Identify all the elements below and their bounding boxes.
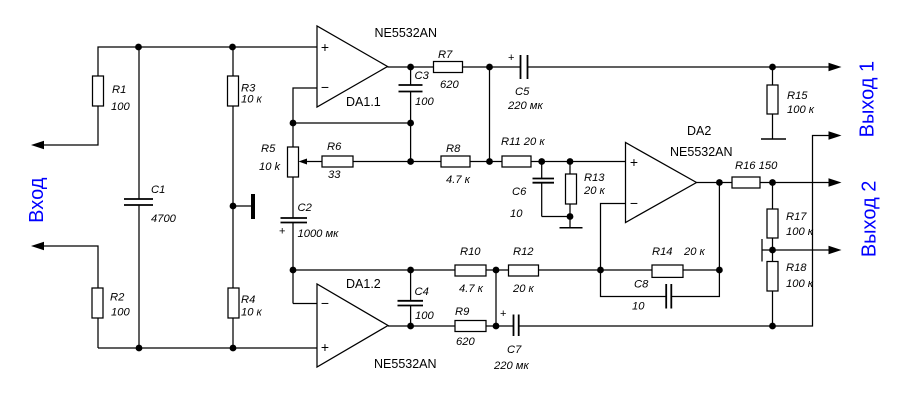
svg-text:DA2: DA2 bbox=[687, 124, 711, 138]
svg-text:+: + bbox=[321, 39, 329, 55]
svg-text:100: 100 bbox=[415, 96, 434, 108]
svg-text:C4: C4 bbox=[415, 286, 429, 298]
svg-text:DA1.2: DA1.2 bbox=[346, 277, 381, 291]
svg-text:R11 20 к: R11 20 к bbox=[501, 136, 545, 148]
svg-text:DA1.1: DA1.1 bbox=[346, 95, 381, 109]
svg-text:R8: R8 bbox=[446, 143, 461, 155]
svg-text:R1: R1 bbox=[112, 84, 126, 96]
svg-text:100 к: 100 к bbox=[787, 104, 815, 116]
svg-text:R18: R18 bbox=[786, 262, 807, 274]
svg-text:R5: R5 bbox=[261, 143, 276, 155]
svg-text:C1: C1 bbox=[151, 184, 165, 196]
svg-text:+: + bbox=[279, 226, 285, 238]
svg-text:R6: R6 bbox=[327, 141, 342, 153]
svg-text:Выход 2: Выход 2 bbox=[858, 181, 880, 258]
svg-text:+: + bbox=[508, 52, 514, 64]
svg-text:−: − bbox=[630, 195, 638, 211]
svg-text:R12: R12 bbox=[513, 246, 534, 258]
svg-text:C2: C2 bbox=[298, 202, 313, 214]
svg-text:10 k: 10 k bbox=[259, 161, 282, 173]
svg-text:C5: C5 bbox=[515, 86, 530, 98]
svg-text:10: 10 bbox=[510, 208, 523, 220]
svg-text:1000 мк: 1000 мк bbox=[298, 228, 340, 240]
svg-text:R17: R17 bbox=[786, 211, 807, 223]
svg-text:20 к: 20 к bbox=[512, 283, 535, 295]
svg-text:20 к: 20 к bbox=[583, 185, 606, 197]
svg-text:R9: R9 bbox=[455, 306, 469, 318]
svg-text:Вход: Вход bbox=[26, 177, 48, 223]
svg-text:10: 10 bbox=[632, 301, 645, 313]
svg-text:C6: C6 bbox=[512, 186, 527, 198]
svg-text:100 к: 100 к bbox=[786, 226, 814, 238]
svg-text:R13: R13 bbox=[584, 172, 605, 184]
svg-text:4.7 к: 4.7 к bbox=[459, 283, 484, 295]
svg-text:10 к: 10 к bbox=[241, 93, 263, 105]
svg-text:4.7 к: 4.7 к bbox=[446, 174, 471, 186]
svg-text:R2: R2 bbox=[110, 292, 125, 304]
svg-text:NE5532AN: NE5532AN bbox=[375, 26, 438, 40]
svg-text:R10: R10 bbox=[460, 246, 481, 258]
svg-text:NE5532AN: NE5532AN bbox=[670, 145, 733, 159]
svg-text:+: + bbox=[321, 339, 329, 355]
svg-text:−: − bbox=[321, 295, 329, 311]
svg-text:220 мк: 220 мк bbox=[493, 360, 529, 372]
svg-text:Выход 1: Выход 1 bbox=[856, 61, 878, 138]
svg-text:C7: C7 bbox=[507, 344, 522, 356]
svg-text:4700: 4700 bbox=[151, 213, 177, 225]
svg-text:+: + bbox=[630, 154, 638, 170]
svg-text:C3: C3 bbox=[415, 70, 430, 82]
svg-text:100 к: 100 к bbox=[786, 278, 814, 290]
svg-text:R15: R15 bbox=[787, 90, 808, 102]
svg-text:100: 100 bbox=[111, 306, 130, 318]
svg-text:620: 620 bbox=[456, 336, 475, 348]
svg-text:33: 33 bbox=[328, 169, 341, 181]
svg-text:R16 150: R16 150 bbox=[735, 160, 778, 172]
svg-text:100: 100 bbox=[111, 101, 130, 113]
svg-text:620: 620 bbox=[440, 79, 459, 91]
svg-text:+: + bbox=[500, 308, 506, 320]
svg-text:NE5532AN: NE5532AN bbox=[374, 357, 437, 371]
svg-text:R7: R7 bbox=[438, 49, 453, 61]
svg-text:100: 100 bbox=[415, 310, 434, 322]
svg-text:C8: C8 bbox=[634, 279, 649, 291]
svg-text:10 к: 10 к bbox=[241, 307, 263, 319]
svg-text:R4: R4 bbox=[241, 294, 255, 306]
svg-text:220 мк: 220 мк bbox=[507, 100, 543, 112]
svg-text:−: − bbox=[321, 79, 329, 95]
svg-text:20 к: 20 к bbox=[683, 246, 706, 258]
svg-text:R14: R14 bbox=[652, 246, 673, 258]
